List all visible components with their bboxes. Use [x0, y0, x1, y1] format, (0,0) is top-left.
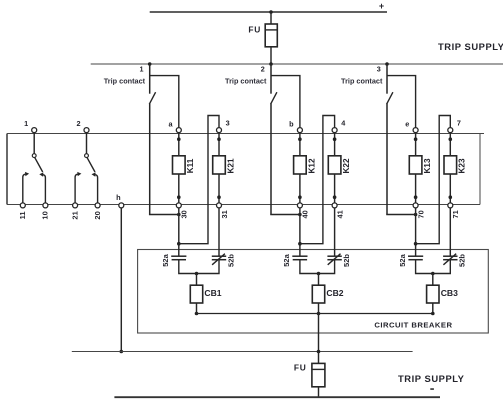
- wire bottom return bus: [72, 351, 413, 353]
- junction dot 30 column contact tee: [177, 213, 181, 217]
- svg-text:3: 3: [377, 65, 381, 74]
- wire into trip coil CB1: [196, 274, 198, 286]
- wire trip contact 2 to node 40: [270, 214, 300, 216]
- wire coil K11 to node 30: [178, 174, 180, 203]
- node terminal 11 circle: [20, 203, 25, 208]
- junction dot fuse column on bottom bus: [317, 350, 321, 354]
- node terminal 20 circle: [95, 203, 100, 208]
- trip contact 1 upper wire: [149, 64, 151, 94]
- svg-text:CIRCUIT BREAKER: CIRCUIT BREAKER: [374, 320, 452, 329]
- svg-text:K21: K21: [226, 158, 235, 173]
- switch S1 contact 11 curve: [23, 174, 26, 202]
- wire coil K12 to node 40: [299, 174, 301, 203]
- svg-text:52b: 52b: [342, 254, 351, 267]
- wire node 41 to contact 52b: [334, 208, 336, 256]
- relay coil K11 body: [173, 156, 186, 174]
- wire node h drop: [120, 208, 122, 352]
- svg-text:a: a: [168, 119, 173, 128]
- wire U-link node 3 bypass: [179, 116, 219, 244]
- relay coil K22 body: [328, 156, 341, 174]
- node terminal 10 circle: [43, 203, 48, 208]
- junction dot 40 column contact tee: [298, 213, 302, 217]
- wire contact 52b breaker 1 to CB coil: [197, 260, 220, 274]
- switch S2 pivot: [85, 154, 89, 158]
- fuse FU bottom wire to negative line: [318, 387, 320, 397]
- wire node 71 to contact 52b: [449, 208, 451, 256]
- relay coil K12 body: [294, 156, 307, 174]
- svg-text:CB2: CB2: [326, 288, 343, 298]
- node b circle: [297, 128, 302, 133]
- junction dot below node 3: [217, 137, 221, 141]
- wire node e to coil K13: [415, 133, 417, 156]
- junction dot CB coil 2 input: [317, 272, 321, 276]
- contact 52b breaker 1 bottom plate: [212, 259, 226, 261]
- contact 52b breaker 1 slash: [212, 254, 225, 265]
- junction dot CB2 on CB bus: [317, 312, 321, 316]
- svg-text:11: 11: [18, 211, 27, 219]
- wire branch 2 feed: [271, 76, 300, 128]
- svg-text:21: 21: [70, 211, 79, 219]
- contact 52b breaker 2 slash: [328, 254, 341, 265]
- wire coil K21 to node 31: [218, 174, 220, 203]
- contact 52b breaker 3 slash: [443, 254, 456, 265]
- wire CB common bus: [197, 313, 433, 315]
- junction dot 70 column contact tee: [414, 213, 418, 217]
- junction dot CB coil 1 input: [195, 272, 199, 276]
- svg-text:K13: K13: [423, 158, 432, 173]
- svg-text:K22: K22: [342, 158, 351, 173]
- wire contact 52a breaker 2 to CB coil: [300, 260, 319, 274]
- svg-text:K12: K12: [307, 158, 316, 173]
- junction dot above node 31: [217, 195, 221, 199]
- junction dot CB3 on CB bus: [431, 312, 435, 316]
- trip contact 3 upper wire: [386, 64, 388, 94]
- wire trip contact 3 to node 70: [386, 214, 415, 216]
- node h circle: [119, 203, 124, 208]
- wire node 31 to contact 52b: [218, 208, 220, 256]
- junction dot CB1 on CB bus: [195, 312, 199, 316]
- wire node b to coil K12: [299, 133, 301, 156]
- contact 52a breaker 1 bottom plate: [172, 259, 186, 261]
- svg-text:Trip contact: Trip contact: [341, 77, 383, 86]
- svg-text:30: 30: [180, 210, 189, 218]
- wire right rail: [479, 134, 481, 205]
- svg-text:3: 3: [226, 119, 230, 128]
- wire trip coil CB3 to CB bus: [432, 303, 434, 314]
- wire top positive supply bus: [150, 11, 387, 13]
- svg-text:CB3: CB3: [441, 288, 458, 298]
- relay coil K23 body: [444, 156, 457, 174]
- svg-text:41: 41: [335, 210, 344, 218]
- svg-text:40: 40: [301, 210, 310, 218]
- node 7 circle: [448, 128, 453, 133]
- wire trip coil CB1 to CB bus: [196, 303, 198, 314]
- switch S2 contact 20 arrowhead: [92, 172, 96, 176]
- svg-text:20: 20: [93, 211, 102, 219]
- wire trip supply bus: [91, 63, 503, 65]
- svg-text:4: 4: [341, 119, 346, 128]
- junction dot U-link tee branch 2: [298, 242, 302, 246]
- junction dot h on bottom bus: [120, 350, 124, 354]
- node 70 circle: [413, 203, 418, 208]
- wire contact 52b breaker 2 to CB coil: [319, 260, 335, 274]
- node 71 circle: [448, 203, 453, 208]
- switch S2 blade: [87, 157, 95, 172]
- node 41 circle: [332, 203, 337, 208]
- svg-text:b: b: [289, 119, 294, 128]
- wire branch 3 feed: [387, 76, 416, 128]
- node 2 terminal circle: [84, 128, 89, 133]
- contact 52a breaker 1 top plate: [171, 255, 186, 257]
- wire node 70 to contact 52a: [415, 208, 417, 256]
- svg-text:2: 2: [76, 119, 80, 128]
- svg-text:+: +: [379, 1, 384, 11]
- junction dot branch 2 on trip supply bus: [269, 62, 273, 66]
- switch S2 contact 21 arrowhead: [77, 172, 81, 176]
- trip contact 1 blade: [149, 92, 155, 104]
- wire into trip coil CB3: [432, 274, 434, 286]
- svg-text:1: 1: [140, 65, 144, 74]
- svg-text:Trip contact: Trip contact: [225, 77, 267, 86]
- trip contact 2 upper wire: [270, 64, 272, 94]
- node 30 circle: [176, 203, 181, 208]
- label - (negative supply): [430, 388, 434, 390]
- trip contact 2 lower wire: [270, 104, 272, 215]
- switch S1 pole wire: [33, 133, 35, 154]
- junction dot above node 30: [177, 195, 181, 199]
- junction dot below node 4: [333, 137, 337, 141]
- svg-text:70: 70: [416, 210, 425, 218]
- fuse FU (bottom) wire from bottom bus: [318, 352, 320, 364]
- node e circle: [413, 128, 418, 133]
- fuse FU bottom body: [312, 363, 325, 386]
- svg-text:CB1: CB1: [204, 288, 221, 298]
- svg-text:FU: FU: [294, 362, 307, 372]
- svg-text:52a: 52a: [398, 253, 407, 266]
- contact 52b breaker 2 top plate: [327, 255, 341, 257]
- relay coil K21 body: [213, 156, 226, 174]
- junction dot above node 70: [414, 195, 418, 199]
- wire CB bus down to bottom bus: [318, 314, 320, 352]
- svg-text:2: 2: [261, 65, 265, 74]
- wire node 7 to coil K23: [449, 133, 451, 156]
- svg-text:10: 10: [41, 211, 50, 219]
- trip contact 1 lower wire: [149, 104, 151, 215]
- svg-text:31: 31: [220, 210, 229, 218]
- switch S1 pivot: [32, 154, 36, 158]
- svg-text:K23: K23: [458, 158, 467, 173]
- contact 52b breaker 3 bottom plate: [443, 259, 457, 261]
- junction dot branch 3 on trip supply bus: [385, 62, 389, 66]
- svg-text:TRIP SUPPLY: TRIP SUPPLY: [398, 373, 465, 384]
- wire into trip coil CB2: [318, 274, 320, 286]
- fuse FU top internal bar: [265, 29, 277, 31]
- contact 52b breaker 3 top plate: [443, 255, 457, 257]
- svg-text:1: 1: [24, 119, 28, 128]
- junction dot CB coil 3 input: [431, 272, 435, 276]
- wire contact 52a breaker 3 to CB coil: [416, 260, 433, 274]
- wire node 40 to contact 52a: [299, 208, 301, 256]
- trip coil CB3 body: [427, 285, 439, 303]
- switch S2 contact 20 curve: [95, 175, 97, 203]
- fuse FU (top) wire from bus: [270, 12, 272, 24]
- switch S2 contact 21 curve: [75, 174, 78, 202]
- trip contact 3 lower wire: [386, 104, 388, 215]
- fuse FU top body: [265, 24, 277, 47]
- wire node rail B: [7, 204, 480, 206]
- relay coil K13 body: [409, 156, 422, 174]
- wire trip contact 1 to node 30: [149, 214, 179, 216]
- wire node a to coil K11: [178, 133, 180, 156]
- node 4 circle: [332, 128, 337, 133]
- wire coil K13 to node 70: [415, 174, 417, 203]
- contact 52a breaker 3 top plate: [408, 255, 423, 257]
- node a circle: [176, 128, 181, 133]
- contact 52b breaker 2 bottom plate: [327, 259, 341, 261]
- svg-text:52b: 52b: [458, 254, 467, 267]
- junction dot below node b: [298, 137, 302, 141]
- svg-text:TRIP SUPPLY: TRIP SUPPLY: [438, 41, 503, 52]
- svg-text:h: h: [116, 193, 121, 202]
- trip contact 3 blade: [387, 92, 393, 104]
- svg-text:e: e: [405, 119, 409, 128]
- junction dot FU top bus: [269, 10, 273, 14]
- svg-text:52a: 52a: [161, 253, 170, 266]
- junction dot U-link tee branch 3: [414, 242, 418, 246]
- contact 52b breaker 1 top plate: [212, 255, 226, 257]
- wire node rail A: [7, 133, 484, 135]
- wire coil K23 to node 71: [449, 174, 451, 203]
- wire node 4 to coil K22: [334, 133, 336, 156]
- node 3 circle: [217, 128, 222, 133]
- contact 52a breaker 2 top plate: [292, 255, 307, 257]
- switch S1 contact 11 arrowhead: [25, 172, 29, 176]
- wire contact 52a breaker 1 to CB coil: [179, 260, 197, 274]
- svg-text:71: 71: [451, 210, 460, 218]
- wire node 3 to coil K21: [218, 133, 220, 156]
- junction dot above node 40: [298, 195, 302, 199]
- wire U-link node 4 bypass: [300, 116, 335, 244]
- node terminal 21 circle: [73, 203, 78, 208]
- junction dot branch 1 on trip supply bus: [148, 62, 152, 66]
- svg-text:K11: K11: [186, 158, 195, 173]
- circuit breaker enclosure box: [138, 250, 489, 334]
- contact 52a breaker 3 bottom plate: [408, 259, 422, 261]
- trip coil CB2 body: [312, 285, 324, 303]
- switch S1 contact 10 arrowhead: [39, 172, 43, 176]
- wire left rail: [6, 134, 8, 205]
- wire trip coil CB2 to CB bus: [318, 303, 320, 314]
- wire coil K22 to node 41: [334, 174, 336, 203]
- fuse FU bottom internal bar: [312, 368, 325, 370]
- wire node 30 to contact 52a: [178, 208, 180, 256]
- wire branch 1 feed: [150, 76, 179, 128]
- trip contact 2 blade: [271, 92, 277, 104]
- svg-text:52b: 52b: [226, 254, 235, 267]
- junction dot above node 71: [449, 195, 453, 199]
- junction dot above node 41: [333, 195, 337, 199]
- switch S2 pole wire: [86, 133, 88, 154]
- fuse FU top wire to bus 2: [270, 47, 272, 64]
- node 1 terminal circle: [32, 128, 37, 133]
- switch S1 contact 10 curve: [43, 175, 45, 203]
- wire bottom negative supply line: [114, 396, 440, 398]
- svg-text:7: 7: [457, 119, 461, 128]
- contact 52a breaker 2 bottom plate: [293, 259, 307, 261]
- junction dot below node e: [414, 137, 418, 141]
- svg-text:FU: FU: [248, 25, 261, 35]
- node 40 circle: [297, 203, 302, 208]
- node 31 circle: [217, 203, 222, 208]
- svg-text:52a: 52a: [282, 253, 291, 266]
- junction dot U-link tee branch 1: [177, 242, 181, 246]
- wire contact 52b breaker 3 to CB coil: [433, 260, 451, 274]
- junction dot below node 7: [449, 137, 453, 141]
- svg-text:Trip contact: Trip contact: [104, 77, 146, 86]
- junction dot below node a: [177, 137, 181, 141]
- trip coil CB1 body: [190, 285, 202, 303]
- wire U-link node 7 bypass: [416, 116, 451, 244]
- switch S1 blade: [35, 157, 43, 172]
